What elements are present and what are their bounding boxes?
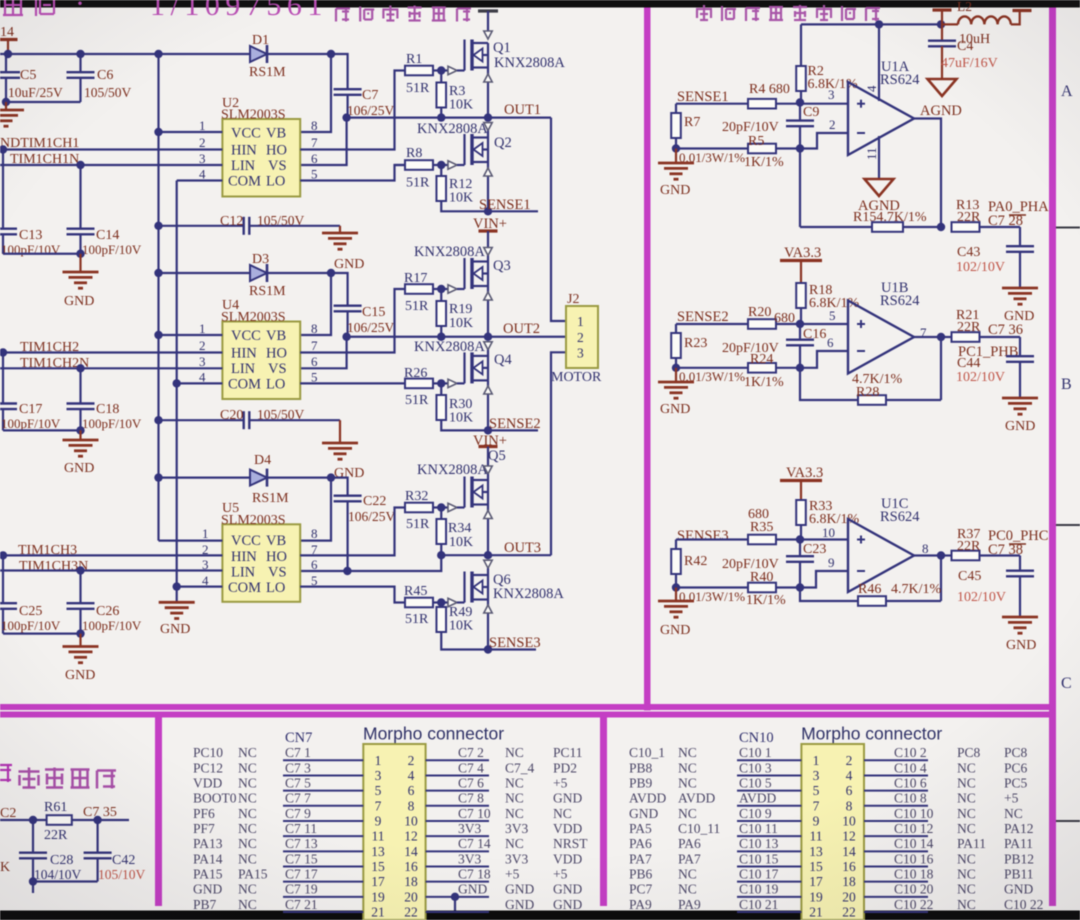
net C7 9 (pin 9 CN7)	[285, 806, 311, 821]
pin row CN7.3 port labels	[193, 760, 257, 775]
resistor R40	[748, 583, 800, 593]
svg-text:C7 17: C7 17	[285, 866, 318, 881]
svg-text:15: 15	[371, 859, 385, 874]
svg-text:6: 6	[311, 354, 318, 369]
value R28 4.7K/1%	[852, 372, 903, 387]
wire CN10 pin 21	[737, 911, 801, 913]
svg-text:VS: VS	[268, 158, 287, 174]
wire C28/C42 join	[29, 877, 98, 893]
ground C17/C18	[63, 430, 99, 476]
svg-text:3V3: 3V3	[505, 821, 528, 836]
power flag rail right	[1013, 9, 1032, 12]
value Q5 KNX2808A	[417, 462, 488, 478]
net SENSE2 right	[677, 309, 729, 325]
pin row CN7.1 port labels	[193, 745, 257, 760]
wire CN10 pin 19	[737, 896, 801, 898]
label R2	[808, 64, 824, 79]
svg-text:NC: NC	[505, 806, 524, 821]
svg-text:K: K	[0, 860, 10, 875]
svg-text:6: 6	[827, 335, 834, 350]
value C12 105/50V	[257, 213, 305, 228]
label J2	[567, 292, 579, 307]
pin row CN7.13 port labels	[193, 836, 257, 851]
pin 1 CN7	[375, 753, 382, 768]
pin 2 CN10	[846, 753, 853, 768]
svg-text:C10 22: C10 22	[894, 897, 933, 912]
label R8	[406, 146, 422, 161]
junction SENSE1	[484, 207, 492, 215]
junction COM bus pin4 U4	[173, 379, 181, 387]
wire CN7 pin 17	[283, 881, 363, 883]
svg-text:C7 14: C7 14	[458, 836, 491, 851]
svg-text:102/10V: 102/10V	[956, 260, 1005, 275]
pin 8 U5	[311, 526, 318, 541]
svg-text:C7 1: C7 1	[285, 745, 311, 760]
svg-text:C7 21: C7 21	[285, 897, 318, 912]
net SENSE3	[489, 635, 541, 651]
net TIM1CH3N	[19, 559, 88, 574]
svg-text:OUT3: OUT3	[504, 540, 541, 556]
wire C13/C14 join	[3, 250, 85, 258]
svg-text:11: 11	[372, 829, 385, 844]
wire CN7 pin 11	[283, 835, 363, 837]
wire TIM1CH2	[0, 348, 222, 356]
svg-text:18: 18	[842, 874, 856, 889]
wire CN10 pin 8	[864, 805, 928, 807]
value C43 102/10V	[956, 260, 1005, 275]
value C28 104/10V	[34, 867, 82, 882]
value U4 SLM2003S	[221, 310, 286, 325]
wire VS1	[300, 118, 346, 165]
gate driver U2	[222, 119, 300, 197]
op-amp U1C	[848, 519, 914, 592]
capacitor C13	[0, 150, 17, 254]
svg-text:NC: NC	[238, 882, 257, 897]
svg-text:1: 1	[375, 753, 382, 768]
svg-text:GND: GND	[1005, 419, 1035, 434]
wire CN7 pin 12	[426, 835, 489, 837]
svg-text:PA15: PA15	[193, 866, 223, 881]
svg-text:VDD: VDD	[193, 775, 222, 790]
wire minus input A	[800, 133, 848, 149]
value C4 47uF/16V	[941, 56, 998, 71]
svg-text:PF6: PF6	[193, 806, 215, 821]
label C9	[803, 105, 819, 120]
svg-text:106/25V: 106/25V	[347, 320, 395, 335]
svg-text:NC: NC	[957, 851, 976, 866]
label R45	[404, 584, 427, 599]
resistor R17	[405, 284, 448, 294]
resistor R49	[436, 603, 488, 650]
net C7 3 (pin 3 CN7)	[285, 760, 311, 775]
svg-text:19: 19	[809, 889, 823, 904]
value R34 10K	[449, 535, 473, 550]
sheet bottom black bar	[0, 911, 1080, 920]
wire CN7 pin 6	[426, 790, 489, 792]
value U1A RS624	[880, 72, 920, 88]
pin row CN10.8 net/port labels	[894, 791, 1019, 806]
drain arrow Q5	[484, 466, 492, 480]
label R18	[809, 283, 832, 298]
svg-text:SENSE2: SENSE2	[677, 309, 729, 325]
pin 8 U1C	[922, 541, 929, 556]
svg-text:GND: GND	[660, 623, 690, 638]
svg-text:7: 7	[813, 798, 820, 813]
resistor R34	[436, 508, 446, 556]
value C20 105/50V	[257, 407, 305, 422]
wire CN7 pin 22	[426, 911, 489, 913]
pin row CN7.10 net/port labels	[458, 806, 572, 821]
junction R45/R49	[437, 598, 445, 606]
svg-text:C42: C42	[112, 853, 135, 868]
label C18	[96, 402, 119, 417]
svg-text:C10 6: C10 6	[894, 775, 927, 790]
svg-text:C7 9: C7 9	[285, 806, 311, 821]
junction rail/C6	[76, 50, 84, 58]
wire COM bus	[176, 181, 178, 603]
wire CN7 pin 1	[283, 759, 363, 761]
net SENSE3 right	[677, 528, 729, 544]
value R42 0.01/3W/1%	[679, 589, 745, 604]
svg-text:R42: R42	[684, 554, 707, 569]
svg-text:GND: GND	[64, 461, 94, 476]
pin 7 CN10	[813, 798, 820, 813]
svg-text:PC10: PC10	[193, 745, 223, 760]
title OUTPUT DRIVE CIRCUIT 输出驱动电路	[336, 6, 471, 22]
svg-text:PA11: PA11	[1004, 836, 1033, 851]
svg-text:5: 5	[813, 783, 820, 798]
svg-text:104/10V: 104/10V	[34, 867, 82, 882]
svg-text:16: 16	[404, 859, 418, 874]
svg-text:OUT2: OUT2	[503, 321, 540, 337]
svg-text:C10 4: C10 4	[894, 760, 927, 775]
pin row CN10.17 port labels	[629, 866, 697, 881]
svg-text:KNX2808A: KNX2808A	[414, 339, 485, 355]
wire U1A output	[914, 119, 941, 228]
value R8 51R	[406, 176, 430, 191]
svg-text:AVDD: AVDD	[739, 791, 777, 806]
resistor R33	[796, 500, 806, 538]
net C10 5 (pin 5 CN10)	[739, 775, 772, 790]
svg-text:NC: NC	[505, 745, 524, 760]
resistor R61	[47, 815, 72, 825]
svg-text:1/1097561: 1/1097561	[150, 0, 328, 22]
wire CN10 pin 22	[864, 911, 928, 913]
pin 8 CN10	[846, 798, 853, 813]
svg-text:PA9: PA9	[678, 897, 701, 912]
label C15	[362, 305, 385, 320]
wire U1C output	[914, 554, 941, 556]
wire feedback A	[800, 149, 941, 228]
label R21	[956, 308, 979, 323]
left cut glyph fragment	[0, 765, 12, 782]
wire CN10 pin 18	[864, 881, 928, 883]
wire CN7 pin 2	[426, 759, 489, 761]
wire TIM1CH2N	[0, 364, 222, 372]
pin 18 CN7	[404, 874, 418, 889]
pin row CN7.20 net/port labels	[458, 882, 582, 897]
junction VCC bus C20	[154, 416, 162, 424]
wire SENSE1 stub	[488, 210, 538, 212]
svg-text:C10 18: C10 18	[894, 866, 934, 881]
value R12 10K	[449, 191, 473, 206]
transistor Q3	[465, 258, 489, 289]
svg-text:NC: NC	[238, 806, 257, 821]
value C15 106/25V	[347, 320, 395, 335]
divider vertical center	[644, 8, 651, 711]
svg-text:6: 6	[311, 557, 318, 572]
label C45	[958, 569, 981, 584]
value Q1 KNX2808A	[494, 55, 565, 71]
svg-text:C10 14: C10 14	[894, 836, 934, 851]
wire VCC bus to U5 pin1	[159, 539, 223, 541]
svg-text:D4: D4	[254, 453, 271, 468]
wire plus input B	[800, 323, 848, 325]
svg-text:CN10: CN10	[739, 730, 774, 746]
wire CN10 pin 11	[737, 835, 801, 837]
svg-text:C7 7: C7 7	[285, 791, 311, 806]
svg-text:LIN: LIN	[231, 158, 256, 174]
svg-text:1: 1	[199, 321, 206, 336]
value C9 20pF/10V	[722, 120, 779, 135]
pin 4 U1A	[864, 24, 879, 101]
pin row CN10.2 net/port labels	[894, 745, 1028, 760]
pin 3 U5	[202, 557, 209, 572]
pin 3 U4	[199, 354, 206, 369]
svg-text:22R: 22R	[44, 828, 68, 843]
drain arrow Q1	[484, 31, 492, 39]
pin 19 CN10	[809, 889, 823, 904]
net C10 11 (pin 11 CN10)	[739, 821, 778, 836]
pin 16 CN10	[842, 859, 856, 874]
junction C15/OUT2/VS	[342, 333, 350, 341]
svg-text:Morpho connector: Morpho connector	[801, 724, 942, 744]
svg-text:LIN: LIN	[231, 361, 256, 377]
gate arrow Q5	[448, 503, 465, 511]
label C44	[957, 356, 980, 371]
svg-text:LO: LO	[266, 377, 285, 393]
svg-text:GND: GND	[505, 882, 534, 897]
wire CN10 pin 16	[864, 865, 928, 867]
svg-text:100pF/10V: 100pF/10V	[82, 618, 142, 633]
net SENSE2	[489, 416, 541, 432]
svg-text:NC: NC	[238, 897, 257, 912]
divider horizontal lower	[0, 712, 1056, 718]
pin 5 U2	[311, 167, 318, 182]
wire CN7 pin 3	[283, 774, 363, 776]
pin 10 CN7	[404, 813, 418, 828]
svg-text:NC: NC	[505, 836, 524, 851]
capacitor C45	[1006, 556, 1034, 618]
svg-text:C43: C43	[957, 245, 980, 260]
gate driver U5	[222, 524, 300, 602]
wire OUT1	[347, 118, 566, 321]
junction R1/R3	[437, 66, 445, 74]
junction Q3 source/OUT2	[484, 333, 492, 341]
analog ground AGND C4	[920, 79, 962, 119]
wire HO1	[300, 71, 405, 150]
wire VS3	[300, 555, 441, 571]
svg-text:HO: HO	[266, 346, 287, 362]
capacitor C26	[67, 571, 95, 634]
svg-text:GND: GND	[553, 791, 582, 806]
svg-text:HO: HO	[266, 549, 287, 565]
svg-text:C15: C15	[362, 305, 385, 320]
wire CN10 pin 3	[737, 774, 801, 776]
wire CN7 pin 10	[426, 820, 489, 822]
frame tick B/C	[1056, 524, 1080, 526]
value C13 100pF/10V	[1, 242, 61, 257]
svg-text:KNX2808A: KNX2808A	[414, 244, 485, 260]
pin 12 CN7	[404, 829, 418, 844]
svg-text:7: 7	[311, 135, 318, 150]
value R32 51R	[406, 517, 430, 532]
pin 2 J2	[577, 330, 584, 345]
junction rail C4	[937, 20, 945, 28]
pin row CN10.18 net/port labels	[894, 866, 1034, 881]
label U1C	[881, 496, 908, 512]
pin row CN10.22 net/port labels	[894, 897, 1043, 912]
junction rail/VCC bus	[154, 50, 162, 58]
capacitor C28	[19, 820, 47, 882]
divider horizontal upper	[0, 704, 1056, 710]
pin 17 CN7	[371, 874, 385, 889]
label C22	[363, 494, 386, 509]
svg-text:PC12: PC12	[193, 760, 223, 775]
inductor L2	[941, 0, 1020, 24]
wire CN7 pin 13	[283, 850, 363, 852]
pin row CN7.2 net/port labels	[458, 745, 583, 760]
wire D3 row	[159, 273, 348, 306]
capacitor C22	[334, 496, 362, 571]
wire CN7 pin 14	[426, 850, 489, 852]
svg-text:VDD: VDD	[553, 851, 582, 866]
label R23	[684, 336, 707, 351]
op-amp U1A	[848, 82, 914, 155]
gate arrow Q4	[448, 379, 465, 387]
svg-text:R7: R7	[684, 115, 700, 130]
svg-text:PA6: PA6	[678, 836, 701, 851]
svg-text:6: 6	[846, 783, 853, 798]
value R37 22R	[957, 539, 981, 554]
svg-text:106/25V: 106/25V	[348, 509, 396, 524]
value C42 105/10V	[98, 867, 146, 882]
ground C5/C6	[0, 102, 24, 126]
pin 7 U5	[311, 542, 318, 557]
svg-text:NC: NC	[238, 851, 257, 866]
net C7 13 (pin 13 CN7)	[285, 836, 318, 851]
svg-text:18: 18	[404, 874, 418, 889]
label U5	[222, 501, 239, 516]
svg-text:C7 6: C7 6	[458, 775, 484, 790]
analog ground AGND U1A	[858, 179, 900, 214]
svg-text:20: 20	[404, 889, 418, 904]
label R17	[404, 271, 427, 286]
svg-text:PA11: PA11	[957, 836, 986, 851]
value R13 22R	[957, 210, 981, 225]
wire CN10 pin 13	[737, 850, 801, 852]
pin row CN7.16 net/port labels	[458, 851, 582, 866]
value C26 100pF/10V	[82, 618, 142, 633]
junction VCC bus pin1 U4	[154, 331, 162, 339]
transistor Q2	[465, 134, 489, 165]
svg-text:PB12: PB12	[1004, 851, 1034, 866]
svg-text:5: 5	[311, 167, 318, 182]
svg-text:NC: NC	[957, 821, 976, 836]
svg-text:NC: NC	[678, 775, 697, 790]
label R35	[750, 520, 773, 535]
svg-text:1: 1	[199, 118, 206, 133]
label CN7	[285, 730, 312, 746]
svg-text:Q3: Q3	[493, 258, 511, 274]
label CN7 Morpho connector	[363, 724, 504, 744]
value R23 0.01/3W/1%	[679, 369, 745, 384]
label R26	[404, 366, 427, 381]
wire VB3 riser	[300, 478, 331, 541]
svg-text:10uF/25V: 10uF/25V	[8, 85, 63, 100]
pin 5 U4	[311, 370, 318, 385]
svg-text:51R: 51R	[405, 612, 429, 627]
op-amp U1B	[848, 301, 914, 374]
pin 1 J2	[577, 314, 584, 329]
net C10 17 (pin 17 CN10)	[739, 866, 779, 881]
svg-text:HO: HO	[266, 143, 287, 159]
net C7 5 (pin 5 CN7)	[285, 775, 311, 790]
svg-text:R17: R17	[404, 271, 427, 286]
svg-text:22R: 22R	[957, 210, 981, 225]
pin row CN7.9 port labels	[193, 806, 257, 821]
svg-text:C16: C16	[803, 327, 826, 342]
svg-text:NC: NC	[957, 791, 976, 806]
label C28	[50, 853, 73, 868]
svg-text:D1: D1	[252, 33, 269, 48]
pin 8 CN7	[408, 798, 415, 813]
net TIM1CH1	[0, 136, 79, 151]
svg-text:AVDD: AVDD	[629, 791, 667, 806]
capacitor C20	[244, 411, 250, 429]
svg-text:RS624: RS624	[880, 72, 920, 88]
pin 22 CN7	[404, 905, 418, 920]
svg-text:C7 4: C7 4	[458, 760, 484, 775]
svg-text:RS624: RS624	[880, 293, 920, 309]
net C7 19 (pin 19 CN7)	[285, 882, 318, 897]
pin 5 U5	[311, 573, 318, 588]
net C10 21 (pin 21 CN10)	[739, 897, 778, 912]
pin 1 U4	[159, 321, 223, 336]
wire R42 to R40	[676, 586, 748, 588]
svg-text:NC: NC	[238, 760, 257, 775]
svg-text:2: 2	[829, 117, 836, 132]
svg-text:105/50V: 105/50V	[257, 407, 305, 422]
net PA0_PHA	[988, 199, 1049, 215]
label D1	[252, 33, 269, 48]
label R46	[858, 582, 881, 597]
svg-text:C13: C13	[19, 228, 42, 243]
svg-text:NC: NC	[957, 866, 976, 881]
svg-text:SLM2003S: SLM2003S	[221, 108, 286, 123]
pin 2 U1A	[829, 117, 836, 132]
net C7_35	[83, 805, 117, 820]
svg-text:HIN: HIN	[231, 143, 257, 159]
svg-text:D3: D3	[252, 252, 269, 267]
junction rail/C5	[4, 50, 12, 58]
net C10 19 (pin 19 CN10)	[739, 882, 779, 897]
svg-text:1K/1%: 1K/1%	[744, 155, 784, 170]
svg-text:22: 22	[842, 905, 856, 920]
junction Q1 source/OUT1	[484, 113, 492, 121]
net TIM1CH2N	[20, 356, 89, 371]
svg-text:R26: R26	[404, 366, 427, 381]
